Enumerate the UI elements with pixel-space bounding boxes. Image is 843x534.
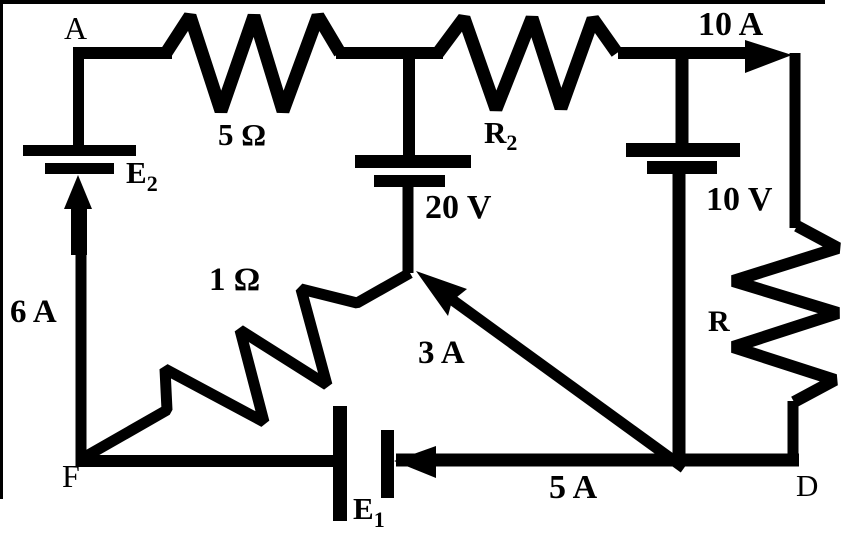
svg-text:6 A: 6 A: [10, 294, 57, 330]
current arrow 5 A head: [394, 446, 436, 478]
resistor R: [733, 226, 838, 402]
svg-text:10 A: 10 A: [698, 6, 764, 43]
current arrow 6 A shaft: [71, 205, 87, 255]
battery 10V short plate: [647, 161, 717, 174]
battery 20V short plate: [374, 175, 445, 187]
wire bottom-left horizontal: [78, 455, 333, 467]
wire left vertical: [76, 254, 87, 466]
wire 10V branch lower: [673, 174, 686, 466]
battery E2 long plate: [23, 145, 136, 156]
svg-text:1 Ω: 1 Ω: [209, 262, 260, 298]
current arrow 6 A head: [64, 175, 92, 209]
wire node A vertical: [73, 47, 84, 150]
svg-text:3 A: 3 A: [418, 335, 465, 371]
wire top-left horizontal: [73, 47, 172, 59]
wire 20V branch upper: [403, 53, 415, 155]
svg-text:10 V: 10 V: [706, 181, 773, 218]
wire top-middle horizontal: [336, 47, 443, 59]
svg-text:20 V: 20 V: [425, 189, 492, 226]
svg-text:F: F: [62, 458, 80, 494]
current arrow 3 A line: [447, 296, 684, 468]
battery E1 short plate: [381, 430, 394, 498]
battery 10V long plate: [626, 143, 740, 157]
battery 20V long plate: [355, 155, 471, 168]
resistor R2: [438, 18, 617, 109]
wire right vertical upper: [790, 53, 801, 228]
wire 10V branch upper: [676, 53, 689, 143]
svg-text:R: R: [708, 305, 730, 338]
wire right vertical lower: [788, 401, 799, 466]
wire bottom-right horizontal: [396, 454, 799, 467]
wire 20V branch lower to node M: [403, 187, 414, 273]
svg-text:5 A: 5 A: [549, 469, 598, 506]
battery E2 short plate: [45, 163, 114, 174]
svg-text:D: D: [796, 468, 818, 503]
wire top-right horizontal: [618, 47, 762, 59]
resistor 1 ohm: [83, 273, 410, 458]
battery E1 long plate: [333, 406, 347, 521]
current arrow 10 A head: [745, 40, 792, 73]
svg-text:A: A: [64, 10, 87, 46]
resistor 5 ohm: [166, 16, 340, 111]
svg-text:5 Ω: 5 Ω: [218, 117, 266, 152]
current arrow 3 A head: [416, 271, 467, 316]
